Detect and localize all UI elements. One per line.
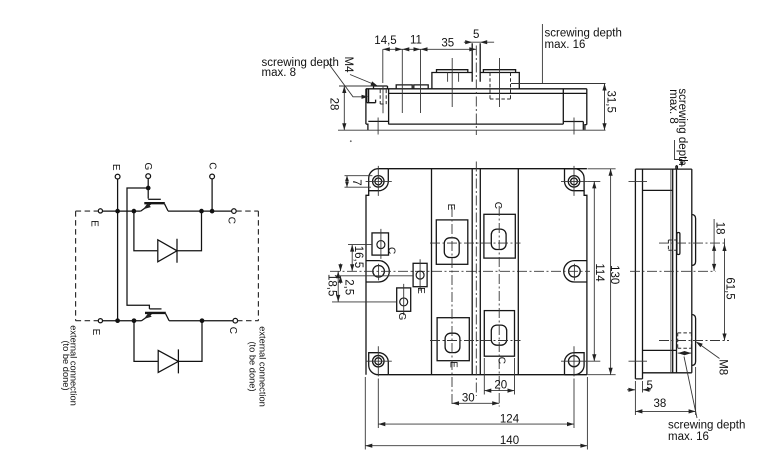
- svg-text:31,5: 31,5: [605, 91, 617, 113]
- svg-text:C: C: [206, 162, 217, 169]
- svg-text:max. 8: max. 8: [262, 67, 297, 79]
- svg-text:(to be done): (to be done): [247, 341, 257, 391]
- svg-text:18,5: 18,5: [325, 274, 337, 296]
- svg-text:C: C: [496, 357, 507, 364]
- svg-text:35: 35: [441, 38, 454, 50]
- svg-text:E: E: [110, 164, 121, 171]
- svg-text:C: C: [492, 202, 503, 209]
- svg-text:20: 20: [494, 380, 507, 392]
- svg-text:G: G: [396, 313, 407, 321]
- svg-text:5: 5: [647, 380, 653, 392]
- svg-text:screwing depth: screwing depth: [545, 28, 622, 40]
- svg-text:38: 38: [654, 398, 667, 410]
- svg-text:(to be done): (to be done): [61, 340, 71, 390]
- svg-text:E: E: [448, 361, 459, 368]
- svg-text:130: 130: [608, 265, 620, 284]
- svg-text:7: 7: [350, 179, 362, 185]
- svg-text:5: 5: [473, 29, 479, 41]
- svg-text:M8: M8: [716, 359, 728, 375]
- svg-text:16,5: 16,5: [352, 246, 364, 268]
- svg-text:30: 30: [462, 392, 475, 404]
- svg-text:E: E: [90, 329, 101, 336]
- svg-text:2,5: 2,5: [343, 279, 355, 295]
- svg-text:28: 28: [328, 98, 340, 111]
- svg-text:G: G: [142, 163, 153, 171]
- svg-text:max. 8: max. 8: [667, 89, 679, 124]
- svg-text:C: C: [227, 327, 238, 334]
- svg-text:61,5: 61,5: [723, 277, 735, 299]
- svg-text:max. 16: max. 16: [668, 431, 709, 443]
- svg-text:max. 16: max. 16: [545, 39, 586, 51]
- svg-text:18: 18: [714, 222, 726, 235]
- svg-text:external connection: external connection: [257, 326, 267, 407]
- svg-text:114: 114: [593, 263, 605, 282]
- svg-text:11: 11: [410, 35, 422, 47]
- svg-text:C: C: [226, 217, 237, 224]
- svg-text:14,5: 14,5: [374, 35, 396, 47]
- svg-text:E: E: [88, 220, 99, 227]
- svg-text:124: 124: [500, 413, 520, 425]
- svg-text:C: C: [385, 247, 396, 254]
- svg-text:M4: M4: [342, 57, 354, 74]
- svg-text:screwing depth: screwing depth: [668, 419, 745, 431]
- svg-text:E: E: [415, 287, 426, 294]
- svg-text:140: 140: [500, 435, 519, 447]
- svg-text:E: E: [445, 204, 456, 211]
